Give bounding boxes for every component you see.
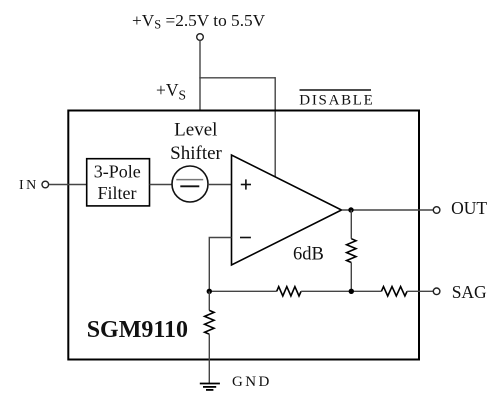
svg-text:Level: Level: [174, 119, 217, 140]
svg-text:Filter: Filter: [98, 183, 137, 203]
svg-text:GND: GND: [232, 374, 272, 390]
svg-text:Shifter: Shifter: [170, 143, 222, 164]
svg-text:OUT: OUT: [451, 198, 487, 218]
svg-text:SAG: SAG: [452, 282, 487, 302]
svg-text:IN: IN: [19, 178, 39, 193]
svg-text:3-Pole: 3-Pole: [94, 161, 141, 181]
svg-text:DISABLE: DISABLE: [299, 93, 374, 109]
svg-text:6dB: 6dB: [293, 244, 324, 264]
svg-text:+VS =2.5V to 5.5V: +VS =2.5V to 5.5V: [132, 11, 266, 31]
svg-text:SGM9110: SGM9110: [87, 317, 188, 343]
